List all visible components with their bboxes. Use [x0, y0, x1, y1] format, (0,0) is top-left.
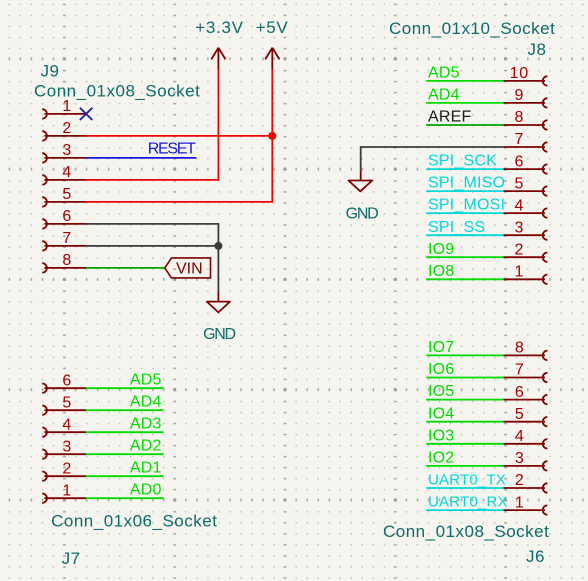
power symbol +3.3V (arrow)	[211, 48, 225, 70]
svg-text:10: 10	[510, 65, 529, 82]
wire SPI_SCK to J8 pin 6	[426, 168, 503, 170]
wire AD3 from J7	[86, 431, 164, 433]
wire AD0 from J7	[86, 497, 164, 499]
svg-text:UART0_TX: UART0_TX	[428, 472, 506, 489]
svg-text:3: 3	[62, 142, 71, 159]
svg-text:AD5: AD5	[428, 65, 460, 82]
connector J8 pin 8 (socket + stub + number)	[504, 109, 548, 130]
connector J8 pin 10 (socket + stub + number)	[504, 65, 548, 86]
connector J9 pin 3 (socket + stub + number)	[42, 142, 86, 163]
connector J8 pin 1 (socket + stub + number)	[504, 264, 548, 285]
power symbol GND (mid, below J8 pin7 wire)	[348, 171, 372, 192]
svg-text:J9: J9	[41, 62, 60, 81]
svg-text:6: 6	[62, 372, 71, 389]
svg-text:5: 5	[62, 186, 71, 203]
svg-text:6: 6	[515, 384, 524, 401]
wire J9 pin 7 to GND column	[86, 245, 218, 247]
wire +3.3V rail down to J9 pin 4	[86, 70, 218, 180]
svg-text:AD2: AD2	[130, 437, 162, 454]
wire J8 pin 7 to GND (mid)	[361, 147, 504, 171]
connector J9 pin 1 (socket + stub + number)	[42, 98, 86, 119]
connector J9 pin 7 (socket + stub + number)	[42, 230, 86, 251]
svg-text:UART0_RX: UART0_RX	[428, 494, 508, 511]
connector J6 pin 8 (socket + stub + number)	[504, 340, 548, 361]
connector J9 pin 4 (socket + stub + number)	[42, 164, 86, 185]
svg-text:6: 6	[514, 153, 524, 170]
connector J6 pin 2 (socket + stub + number)	[504, 472, 548, 493]
wire J9 pin 8 to VIN label	[86, 267, 165, 269]
svg-text:VIN: VIN	[176, 260, 203, 277]
svg-text:IO2: IO2	[428, 450, 454, 467]
svg-text:GND: GND	[203, 326, 235, 343]
power symbol +5V (arrow)	[265, 48, 279, 70]
power symbol GND (below J9)	[207, 291, 230, 312]
wire SPI_MISO to J8 pin 5	[426, 190, 503, 192]
wire IO4 to J6	[426, 421, 503, 423]
wire IO7 to J6	[426, 354, 503, 356]
svg-text:J6: J6	[526, 547, 545, 566]
svg-text:2: 2	[62, 460, 71, 477]
svg-text:4: 4	[62, 164, 71, 181]
wire IO2 to J6	[426, 465, 503, 467]
connector J9 pin 2 (socket + stub + number)	[42, 120, 86, 141]
connector J9 pin 6 (socket + stub + number)	[42, 208, 86, 229]
connector J8 pin 4 (socket + stub + number)	[504, 197, 548, 218]
wire IO9 to J8 pin 2	[426, 256, 503, 258]
svg-text:SPI_SCK: SPI_SCK	[428, 153, 497, 170]
wire AD1 from J7	[86, 475, 164, 477]
wire J9 pin 6 to GND column	[86, 224, 218, 291]
wire AREF to J8 pin 8	[426, 124, 503, 126]
svg-text:J8: J8	[528, 40, 547, 59]
wire UART0_RX to J6	[426, 509, 503, 511]
junction on +5V net at (272,136)	[268, 132, 276, 140]
svg-text:IO6: IO6	[428, 361, 454, 378]
svg-text:8: 8	[62, 252, 71, 269]
svg-text:IO3: IO3	[428, 427, 454, 444]
junction GND net at (218,246)	[214, 242, 222, 250]
connector J7 pin 6 (socket + stub + number)	[42, 372, 86, 393]
connector J7 pin 3 (socket + stub + number)	[42, 438, 86, 459]
connector J8 pin 5 (socket + stub + number)	[504, 175, 548, 196]
svg-text:SPI_MISO: SPI_MISO	[428, 175, 505, 192]
svg-text:2: 2	[62, 120, 71, 137]
svg-text:7: 7	[514, 131, 524, 148]
wire +5V rail down to J9 pin 5	[86, 70, 272, 202]
connector J8 pin 3 (socket + stub + number)	[504, 219, 548, 240]
svg-text:2: 2	[515, 472, 524, 489]
global label VIN	[165, 258, 211, 278]
svg-text:5: 5	[515, 406, 524, 423]
wire AD5 to J8 pin 10	[426, 80, 503, 82]
wire J9 pin 2 to +5V rail	[86, 135, 272, 137]
svg-text:AD4: AD4	[428, 87, 460, 104]
svg-text:AREF: AREF	[428, 109, 471, 126]
connector J7 pin 2 (socket + stub + number)	[42, 460, 86, 481]
svg-text:IO7: IO7	[428, 339, 454, 356]
wire SPI_MOSI to J8 pin 4	[426, 212, 503, 214]
no-connect X on J9 pin 1	[80, 108, 92, 120]
wire RESET from J9 pin 3	[86, 157, 196, 159]
svg-text:3: 3	[515, 450, 524, 467]
svg-text:AD4: AD4	[130, 393, 162, 410]
wire IO3 to J6	[426, 443, 503, 445]
wire AD2 from J7	[86, 453, 164, 455]
svg-text:3: 3	[514, 219, 524, 236]
svg-text:AD5: AD5	[130, 371, 162, 388]
connector J7 pin 5 (socket + stub + number)	[42, 394, 86, 415]
connector J9 pin 5 (socket + stub + number)	[42, 186, 86, 207]
connector J8 pin 2 (socket + stub + number)	[504, 241, 548, 262]
svg-text:SPI_SS: SPI_SS	[428, 219, 485, 236]
svg-text:6: 6	[62, 208, 71, 225]
wire IO8 to J8 pin 1	[426, 278, 503, 280]
wire AD4 to J8 pin 9	[426, 102, 503, 104]
svg-text:AD1: AD1	[130, 459, 162, 476]
connector J7 pin 1 (socket + stub + number)	[42, 482, 86, 503]
svg-text:5: 5	[514, 175, 524, 192]
svg-text:RESET: RESET	[148, 141, 196, 158]
connector J6 pin 4 (socket + stub + number)	[504, 428, 548, 449]
svg-text:IO9: IO9	[428, 241, 454, 258]
connector J6 pin 6 (socket + stub + number)	[504, 384, 548, 405]
connector J8 pin 6 (socket + stub + number)	[504, 153, 548, 174]
svg-text:Conn_01x10_Socket: Conn_01x10_Socket	[389, 19, 555, 38]
connector J7 pin 4 (socket + stub + number)	[42, 416, 86, 437]
svg-text:Conn_01x08_Socket: Conn_01x08_Socket	[34, 82, 200, 101]
svg-text:+3.3V: +3.3V	[195, 18, 243, 37]
svg-text:8: 8	[514, 109, 524, 126]
svg-text:4: 4	[515, 428, 524, 445]
svg-text:8: 8	[515, 340, 524, 357]
svg-text:2: 2	[514, 241, 524, 258]
connector J6 pin 7 (socket + stub + number)	[504, 362, 548, 383]
svg-text:4: 4	[514, 197, 524, 214]
svg-text:J7: J7	[62, 549, 81, 568]
svg-text:4: 4	[62, 416, 71, 433]
wire SPI_SS to J8 pin 3	[426, 234, 503, 236]
svg-text:GND: GND	[346, 206, 378, 223]
svg-text:AD0: AD0	[130, 481, 162, 498]
svg-text:1: 1	[62, 98, 71, 115]
svg-text:Conn_01x08_Socket: Conn_01x08_Socket	[383, 522, 549, 541]
connector J9 pin 8 (socket + stub + number)	[42, 252, 86, 273]
svg-text:AD3: AD3	[130, 415, 162, 432]
svg-text:3: 3	[62, 438, 71, 455]
connector J8 pin 7 (socket + stub + number)	[504, 131, 548, 152]
connector J6 pin 3 (socket + stub + number)	[504, 450, 548, 471]
svg-text:1: 1	[514, 264, 524, 281]
wire IO5 to J6	[426, 399, 503, 401]
svg-text:1: 1	[62, 482, 71, 499]
svg-text:IO5: IO5	[428, 383, 454, 400]
wire UART0_TX to J6	[426, 487, 503, 489]
svg-text:+5V: +5V	[256, 18, 289, 37]
wire AD4 from J7	[86, 409, 164, 411]
svg-text:7: 7	[515, 362, 524, 379]
svg-text:Conn_01x06_Socket: Conn_01x06_Socket	[51, 512, 217, 531]
svg-text:7: 7	[62, 230, 71, 247]
connector J6 pin 5 (socket + stub + number)	[504, 406, 548, 427]
wire AD5 from J7	[86, 387, 164, 389]
svg-text:9: 9	[514, 87, 524, 104]
wire IO6 to J6	[426, 377, 503, 379]
connector J6 pin 1 (socket + stub + number)	[504, 494, 548, 515]
svg-text:1: 1	[515, 494, 524, 511]
svg-text:IO4: IO4	[428, 405, 454, 422]
svg-text:SPI_MOSI: SPI_MOSI	[428, 197, 505, 214]
svg-text:IO8: IO8	[428, 263, 454, 280]
connector J8 pin 9 (socket + stub + number)	[504, 87, 548, 108]
svg-text:5: 5	[62, 394, 71, 411]
